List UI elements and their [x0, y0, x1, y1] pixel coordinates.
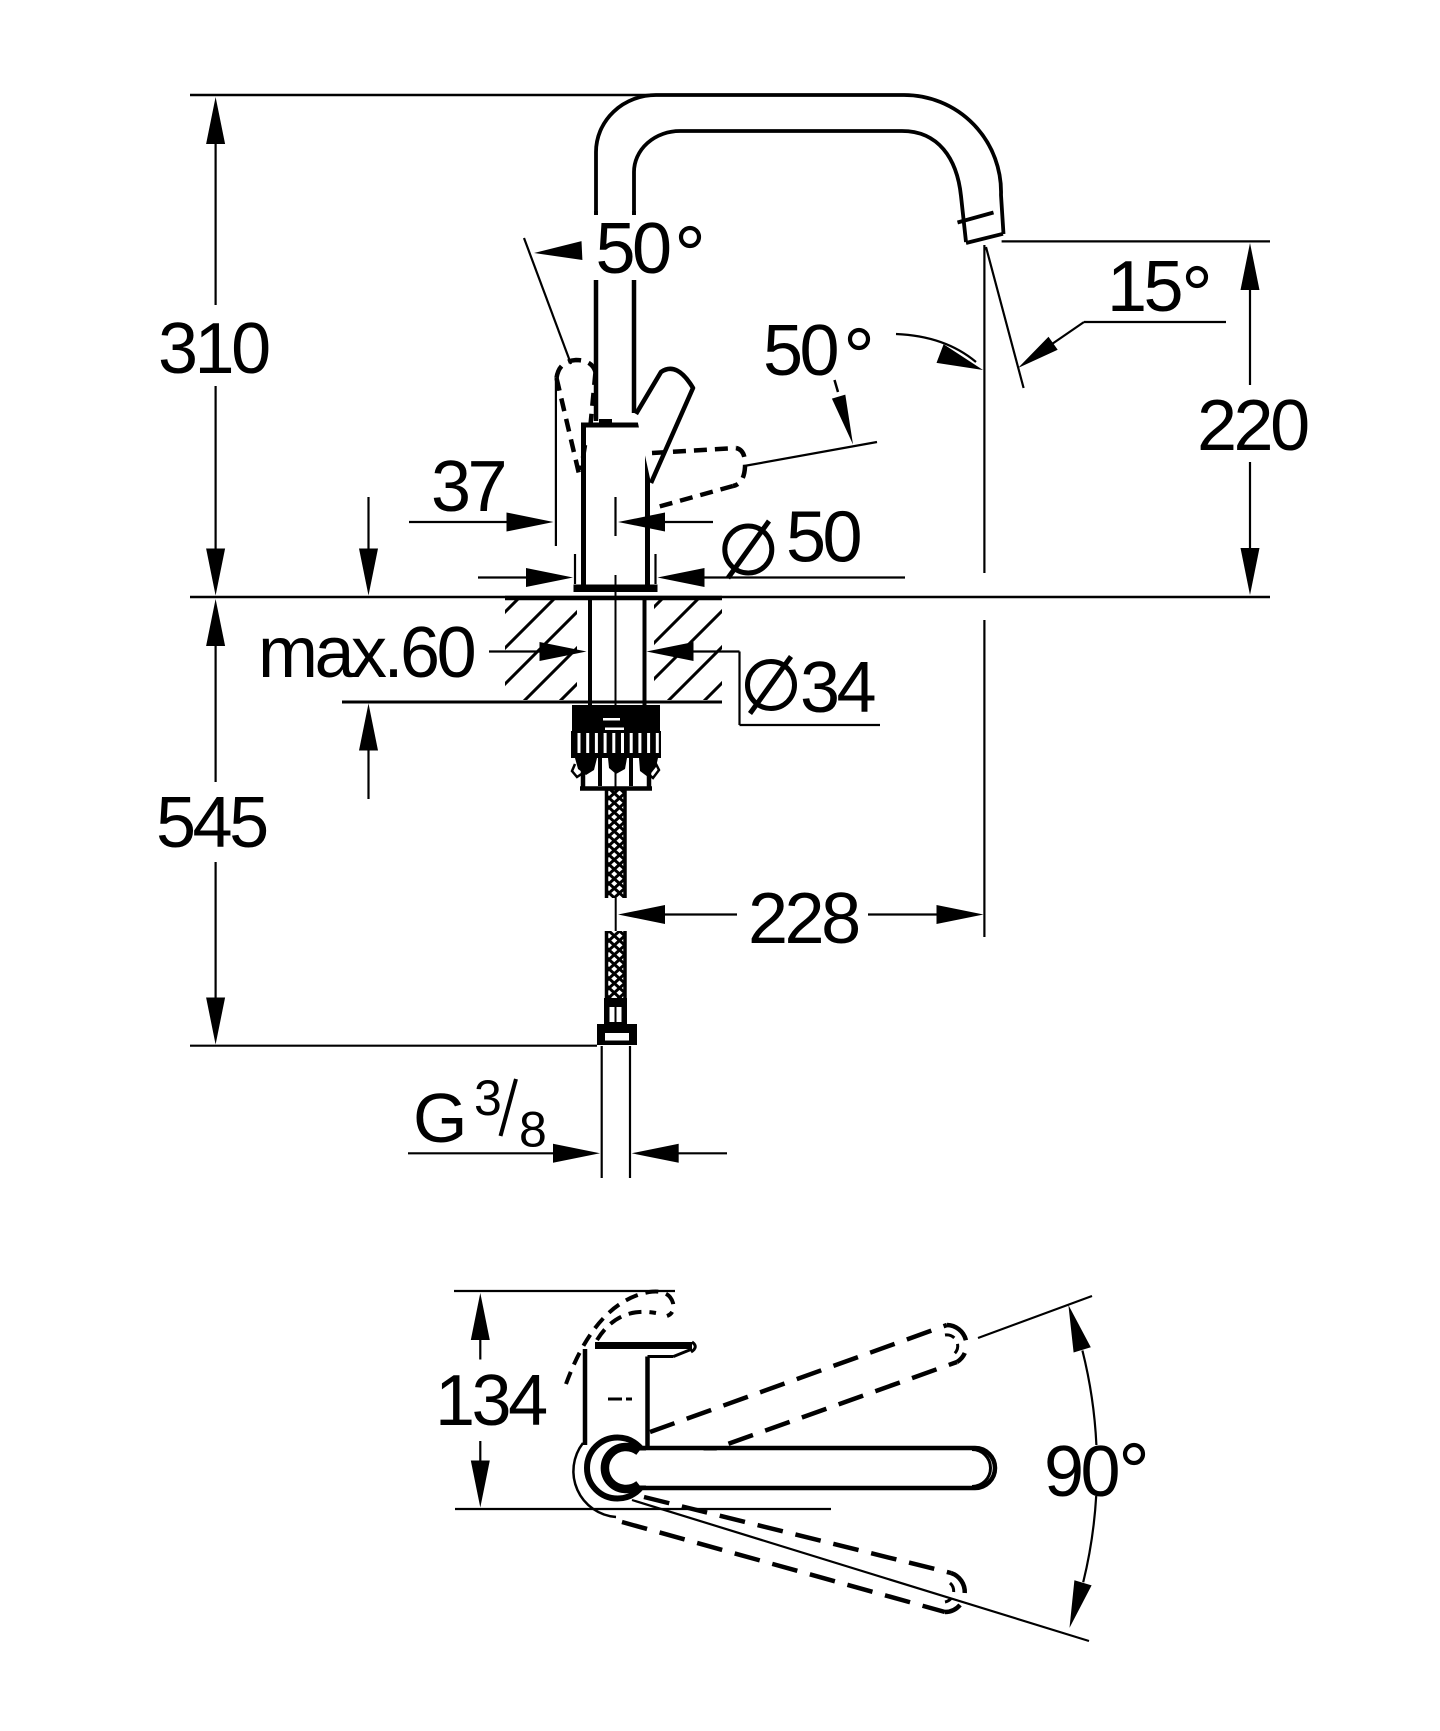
svg-text:G: G	[413, 1079, 464, 1157]
svg-text:310: 310	[158, 309, 269, 389]
svg-text:220: 220	[1197, 386, 1308, 466]
svg-text:3: 3	[474, 1070, 500, 1126]
svg-text:50: 50	[596, 209, 671, 289]
svg-text:37: 37	[431, 447, 505, 527]
svg-text:34: 34	[800, 648, 875, 728]
svg-text:max.60: max.60	[258, 613, 475, 693]
svg-text:90: 90	[1044, 1432, 1119, 1512]
svg-text:15: 15	[1107, 247, 1182, 327]
svg-text:50: 50	[763, 311, 838, 391]
svg-text:134: 134	[435, 1361, 546, 1441]
svg-text:50: 50	[786, 498, 861, 578]
svg-text:545: 545	[156, 783, 267, 863]
svg-text:228: 228	[748, 879, 858, 959]
svg-text:8: 8	[519, 1102, 545, 1158]
